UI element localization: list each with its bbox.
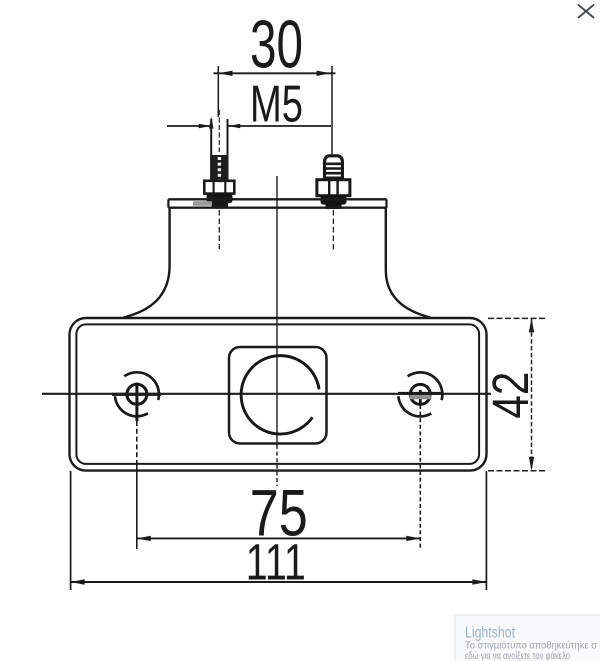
extension line 111 right [485, 471, 487, 590]
Lightshot notification panel [455, 615, 600, 661]
bolt right lower centerline [332, 210, 334, 250]
hole right upper arc [408, 372, 443, 400]
top plate [168, 199, 386, 207]
hole left small circle [127, 384, 147, 404]
extension line 42 bottom [488, 470, 546, 472]
extension line 75 right [419, 405, 421, 549]
body inner outline [76, 324, 479, 464]
bolt right stud [323, 156, 344, 180]
extension line 42 top [488, 317, 546, 319]
bolt right nut [317, 180, 350, 196]
bolt left stud [211, 119, 227, 181]
vertical centerline [276, 176, 278, 486]
bolt left centerline [218, 110, 220, 152]
bolt left lower centerline [218, 210, 220, 249]
hole right center cross [398, 390, 443, 405]
bolt left washer [207, 194, 233, 209]
svg-text:M5: M5 [250, 76, 303, 134]
hole right small circle [410, 384, 430, 404]
svg-text:Το στιγμιότυπο αποθηκεύτηκε σ: Το στιγμιότυπο αποθηκεύτηκε σ [465, 640, 598, 652]
bolt right washer [321, 195, 347, 209]
gray smudge left of bolt [193, 201, 212, 206]
bolt left stud top arrow [209, 117, 214, 129]
bolt left nut [204, 181, 234, 194]
dimension line 30 [214, 71, 336, 76]
svg-text:30: 30 [250, 7, 303, 83]
svg-text:Lightshot: Lightshot [465, 625, 516, 642]
hole right gray bar [410, 395, 432, 399]
neck wall right [386, 208, 431, 318]
lens circle [241, 356, 319, 434]
extension line 30 left [217, 66, 219, 117]
dimension line 42 [529, 318, 534, 470]
hole right lower arc [398, 396, 431, 416]
svg-text:42: 42 [482, 372, 539, 419]
center square [229, 347, 327, 444]
bolt left thread zone [210, 155, 228, 181]
svg-text:111: 111 [246, 534, 306, 591]
hole left lower arc [115, 396, 148, 416]
body outer outline [70, 318, 487, 471]
extension line 111 left [70, 471, 72, 590]
dimension line 75 [137, 536, 421, 541]
hole left center cross [112, 383, 161, 422]
extension line 75 left [136, 421, 138, 549]
horizontal centerline [42, 393, 491, 395]
neck wall left [124, 208, 170, 318]
hole left upper arc [124, 372, 159, 400]
extension line 30 right [331, 66, 333, 155]
close button X [579, 5, 594, 18]
dimension line M5 [167, 124, 331, 129]
svg-text:εδώ για να ανοίξετε τον φάκελο: εδώ για να ανοίξετε τον φάκελο [465, 650, 570, 661]
dimension line 111 [71, 579, 487, 584]
